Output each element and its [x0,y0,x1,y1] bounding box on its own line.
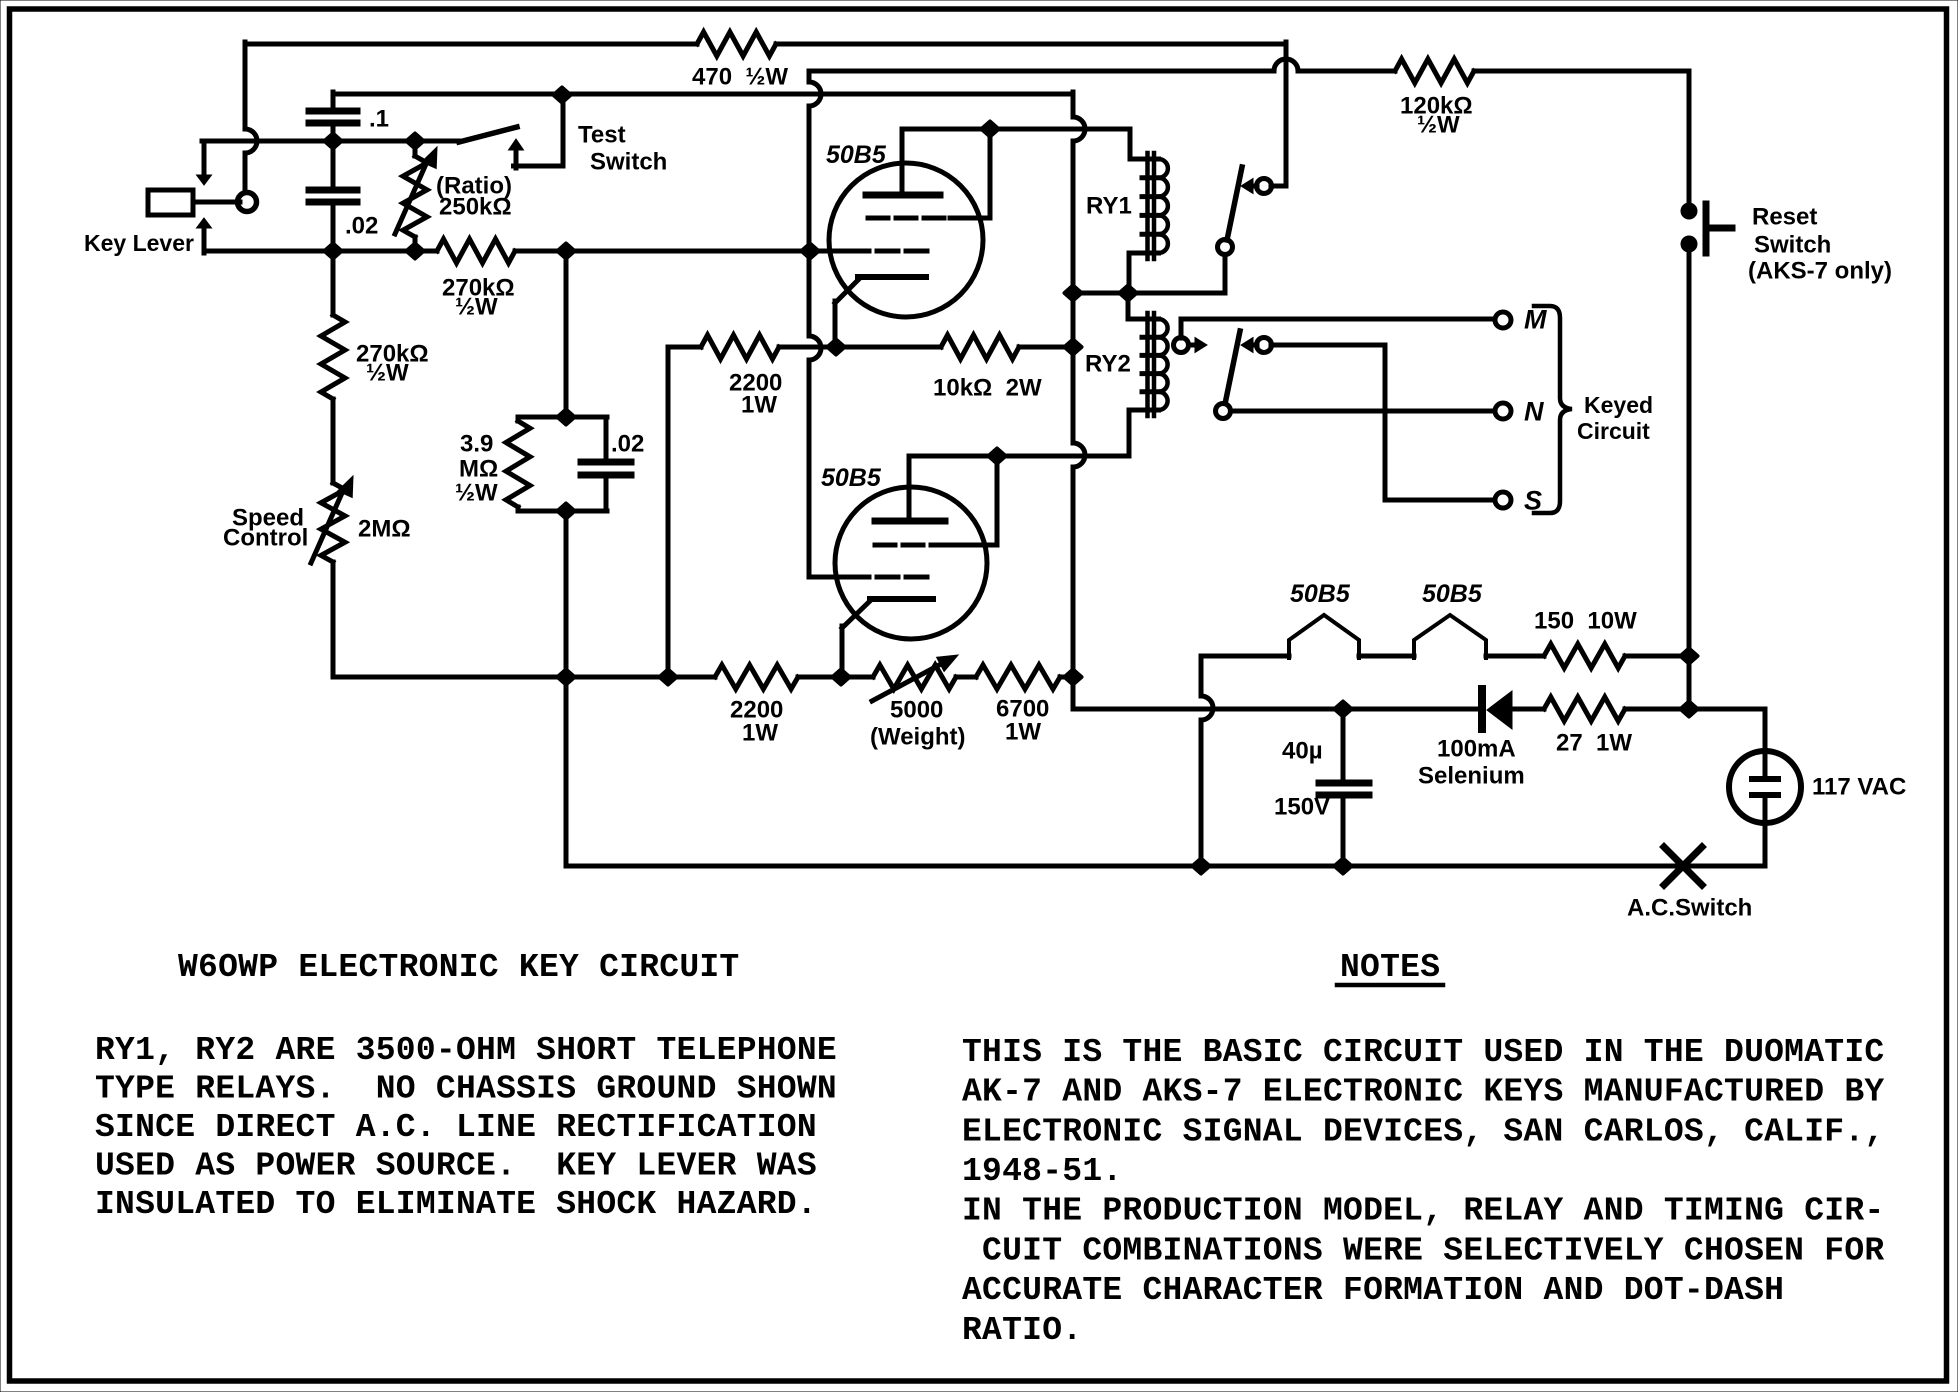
RY1 switch blade [1227,167,1242,240]
heading NOTES [1337,949,1443,986]
svg-text:10kΩ 2W: 10kΩ 2W [933,375,1042,402]
wire 27 row to VAC source [1689,709,1765,777]
junction dot rail x415 [407,244,424,259]
resistor 2200 1W lower [715,665,798,689]
reset switch button [1706,204,1732,253]
label 270k vertical [356,341,429,387]
junction dot rail x566 [558,244,575,259]
RY2 blade lower circle [1216,404,1231,419]
wire plate row y129 to RY1 [902,129,1147,159]
junction dot heater row right [1681,649,1698,664]
label 50B5 lower [821,464,882,492]
svg-text:½W: ½W [1417,112,1460,139]
potentiometer 250k ratio [403,141,427,253]
terminal S [1495,492,1511,508]
junction dot row677 x1073 [1065,670,1082,685]
wire 6700 to x1073 [1060,675,1073,680]
junction dot row677 x566 [558,670,575,685]
svg-text:250kΩ: 250kΩ [439,194,512,221]
label 5000 weight [870,697,966,751]
junction dot rail x810 grid [802,244,819,259]
wire x1073 corner to row709 [1073,677,1478,709]
wire pivot to M terminal [1181,319,1496,338]
heater V1 tent [1289,615,1359,658]
speed control arrow [311,476,353,563]
svg-text:1W: 1W [742,720,778,747]
svg-text:INSULATED TO ELIMINATE SHOCK H: INSULATED TO ELIMINATE SHOCK HAZARD. [95,1186,817,1223]
label Test Switch [578,122,667,176]
RC network bottom rail [518,509,607,514]
svg-text:Keyed: Keyed [1584,392,1653,418]
arrow up below key lever [197,218,212,253]
junction dot cap row left [325,134,342,149]
relay coil RY2 [1142,313,1168,416]
resistor 470 ohm half watt [697,32,776,56]
resistor 150 10W [1544,644,1625,668]
wire row677 left [333,675,715,680]
wire 150 to reset vertical [1625,654,1689,659]
wire 2200 to cathode dot [779,345,941,350]
label 40u [1282,738,1323,765]
svg-text:1948-51.: 1948-51. [962,1153,1122,1190]
wire vertical from top rail down to key terminal with hop [245,42,257,196]
svg-text:.02: .02 [345,213,378,240]
svg-text:N: N [1524,397,1544,427]
weight pot arrow [872,655,958,701]
svg-text:5000: 5000 [890,697,943,724]
label RY1 [1086,193,1132,220]
junction dot 40u top [1335,702,1352,717]
tube V1 plate [866,129,940,195]
label 2200 lower [730,697,783,747]
wire x809 vertical [809,71,821,577]
junction dot x1128 y293 [1120,286,1137,301]
junction dot row677 x668 [660,670,677,685]
svg-text:40µ: 40µ [1282,738,1323,765]
label 150V [1274,794,1330,821]
svg-text:50B5: 50B5 [821,464,882,492]
label RY2 [1085,351,1131,378]
svg-text:50B5: 50B5 [1422,580,1483,608]
tube V1 control grid dashes [848,249,934,254]
resistor 270k upper [437,239,515,263]
svg-text:RY2: RY2 [1085,351,1131,378]
terminal M [1495,312,1511,328]
label 50B5 heater1 [1290,580,1351,608]
resistor 120k [1395,59,1474,83]
wire plate row y456 to RY2 [909,454,1129,459]
svg-text:Control: Control [223,525,308,552]
svg-text:Switch: Switch [590,149,667,176]
junction dot ratio pot top [407,134,424,149]
wire 27 to reset vertical [1625,707,1689,712]
resistor 270k vertical [321,251,345,483]
label 27 1W [1556,730,1632,757]
test switch wire to y94 [514,94,564,166]
resistor 10k 2W [941,335,1019,359]
label .02 lower [611,431,644,458]
svg-text:W6OWP ELECTRONIC KEY CIRCUIT: W6OWP ELECTRONIC KEY CIRCUIT [178,949,740,986]
junction dot cathode V1 [828,340,845,355]
wire heater row corner [1201,656,1289,866]
svg-text:1W: 1W [741,392,777,419]
wire x566 RC bottom to row677 [564,511,569,677]
svg-text:(Weight): (Weight) [870,724,966,751]
label 250k [439,194,512,221]
key lever bar [148,190,193,215]
wire y71 from x809 corner to 120k [809,59,1395,71]
tube V2 control grid [809,575,934,580]
wire top rail from key hook to 470 resistor [245,42,697,47]
label 50B5 heater2 [1422,580,1483,608]
wire rail y251 right segment to tube grid [515,249,848,254]
svg-text:RY1: RY1 [1086,193,1132,220]
svg-text:SINCE DIRECT A.C. LINE RECTIFI: SINCE DIRECT A.C. LINE RECTIFICATION [95,1109,817,1146]
RY2 fixed contact [1241,338,1272,353]
ratio pot arrow [395,147,437,234]
reset switch contacts [1681,203,1697,252]
RY2 coil top lead [1128,293,1147,319]
svg-text:117 VAC: 117 VAC [1812,774,1906,801]
tube V2 screen grid [875,456,997,545]
label 117 VAC [1812,774,1906,801]
svg-text:USED AS POWER SOURCE. KEY LEV: USED AS POWER SOURCE. KEY LEVER WAS [95,1147,817,1184]
wire between tents [1359,654,1414,659]
svg-text:RY1, RY2 ARE 3500-OHM SHORT TE: RY1, RY2 ARE 3500-OHM SHORT TELEPHONE [95,1032,837,1069]
junction dot bottom x1201 [1193,859,1210,874]
wire 2200 row left corner [668,347,701,677]
svg-text:470 ½W: 470 ½W [692,64,788,91]
svg-text:.02: .02 [611,431,644,458]
resistor 3.9M [506,417,530,511]
svg-text:½W: ½W [455,294,498,321]
tube V2 cathode [842,599,933,677]
RY1 fixed contact [1241,179,1272,194]
wire rail y251 key row [204,249,437,254]
wire contact to S terminal [1271,345,1496,500]
label AC Switch [1627,895,1752,922]
label .02 upper [345,213,378,240]
title W6OWP [178,949,740,986]
wire row y293 [1073,254,1225,293]
tube V2 50B5 envelope [835,487,987,639]
notes paragraph left [95,1032,837,1223]
svg-text:150V: 150V [1274,794,1330,821]
wire tent2 to 150 resistor [1486,654,1544,659]
junction dot x1073 y293 [1065,286,1082,301]
junction dot x1073 y347 [1065,340,1082,355]
heater V2 tent [1414,615,1486,658]
svg-text:50B5: 50B5 [826,141,887,169]
key terminal circle [238,193,257,212]
resistor 6700 1W [976,665,1060,689]
capacitor 40u 150V [1319,709,1369,866]
svg-text:NOTES: NOTES [1340,949,1440,986]
svg-text:2MΩ: 2MΩ [358,516,411,543]
label Key Lever [84,230,194,256]
test switch blade [459,127,517,142]
svg-text:M: M [1524,305,1547,335]
wire 5000 to 6700 [956,675,976,680]
svg-text:TYPE RELAYS. NO CHASSIS GROUN: TYPE RELAYS. NO CHASSIS GROUND SHOWN [95,1070,837,1107]
wire bottom rail [566,511,1765,866]
test switch contact arrow [509,139,524,168]
relay coil RY1 [1142,153,1168,259]
label 150 10W [1534,608,1637,635]
svg-text:50B5: 50B5 [1290,580,1351,608]
junction dot RC bottom [558,504,575,519]
label N [1524,397,1544,427]
source 117 VAC [1729,751,1801,823]
svg-text:ACCURATE CHARACTER FORMATION A: ACCURATE CHARACTER FORMATION AND DOT-DAS… [962,1272,1784,1309]
svg-text:100mA: 100mA [1437,736,1516,763]
wire y94 from cap .1 top to corner at x1073 [333,92,1073,108]
RC network top rail [518,415,607,420]
tube V1 cathode [835,277,926,347]
wire 10k to x1073 [1019,345,1073,350]
svg-text:Circuit: Circuit [1577,418,1650,444]
selenium rectifier 100mA [1482,689,1544,729]
switch AC X [1664,847,1702,885]
svg-text:THIS IS THE BASIC CIRCUIT USED: THIS IS THE BASIC CIRCUIT USED IN THE DU… [962,1034,1884,1071]
svg-text:A.C.Switch: A.C.Switch [1627,895,1752,922]
svg-text:CUIT COMBINATIONS WERE SELECTI: CUIT COMBINATIONS WERE SELECTIVELY CHOSE… [962,1232,1884,1269]
svg-text:150 10W: 150 10W [1534,608,1637,635]
tube V1 50B5 envelope [829,163,983,317]
label Ratio [436,173,512,200]
svg-text:½W: ½W [366,360,409,387]
label selenium [1418,736,1525,790]
label S [1524,486,1542,516]
capacitor .02 upper [309,141,357,253]
svg-text:Reset: Reset [1752,204,1817,231]
keyed circuit brace [1534,306,1572,513]
RY2 coil bottom lead [1129,410,1147,456]
wire x1073 from y94 corner down [1073,92,1085,677]
label 6700 [996,696,1049,746]
capacitor .02 lower [581,417,631,511]
wire y141 horizontal key row [202,139,461,144]
junction dot screen-plate [982,122,999,137]
svg-text:(AKS-7 only): (AKS-7 only) [1748,258,1892,285]
junction dot bottom x1343 [1335,859,1352,874]
svg-text:Test: Test [578,122,626,149]
wire key lever to terminal [193,200,240,205]
label 2200 upper [729,370,782,419]
svg-text:3.9: 3.9 [460,431,493,458]
svg-text:AK-7 AND AKS-7 ELECTRONIC KEYS: AK-7 AND AKS-7 ELECTRONIC KEYS MANUFACTU… [962,1074,1884,1111]
RY1 contact wire to top rail [1271,184,1286,189]
junction dot rail x333 [325,244,342,259]
label 120k [1400,93,1473,139]
svg-text:Key Lever: Key Lever [84,230,194,256]
potentiometer 2M speed control [321,483,345,677]
label 2M [358,516,411,543]
svg-text:RATIO.: RATIO. [962,1312,1082,1349]
label 10k 2W [933,375,1042,402]
potentiometer 5000 weight [873,665,956,689]
label 3.9M [455,431,498,507]
RY1 armature pivot [1218,240,1233,255]
wire 2200 to 5000 [798,675,873,680]
RY2 switch blade [1225,331,1240,404]
wire reset switch down to heater row [1687,244,1692,709]
svg-text:IN THE PRODUCTION MODEL, RELAY: IN THE PRODUCTION MODEL, RELAY AND TIMIN… [962,1193,1884,1230]
junction dot cathode V2 [833,670,850,685]
svg-text:.1: .1 [369,106,389,133]
junction dot RC top [558,410,575,425]
label Speed Control [223,505,308,552]
tube V2 plate [875,456,945,521]
junction dot 27 row right [1681,702,1698,717]
svg-text:1W: 1W [1005,719,1041,746]
RY2 armature pivot [1174,338,1208,353]
wire 120k to reset switch corner [1474,71,1689,211]
svg-text:Switch: Switch [1754,232,1831,259]
wire N terminal [1231,409,1496,414]
svg-text:½W: ½W [455,480,498,507]
svg-text:Selenium: Selenium [1418,763,1525,790]
capacitor .1 [309,92,357,141]
wire x566 from rail down to RC top [564,251,569,417]
terminal N [1495,403,1511,419]
svg-text:ELECTRONIC SIGNAL DEVICES, SAN: ELECTRONIC SIGNAL DEVICES, SAN CARLOS, C… [962,1113,1884,1150]
svg-text:MΩ: MΩ [459,456,498,483]
junction dot test switch [554,88,571,103]
label Reset Switch [1748,204,1892,285]
junction dot V2 screen-plate [989,449,1006,464]
label 50B5 upper [826,141,887,169]
label Keyed Circuit [1577,392,1653,444]
wire VAC to bottom rail [1763,795,1768,866]
label M [1524,305,1547,335]
wire top rail right segment to reset-contact corner [776,42,1286,186]
arrow down at key lever [197,143,212,185]
value label 470 halfW [692,64,788,91]
RY1 coil bottom lead [1129,253,1147,293]
label .1 [369,106,389,133]
label 270k upper [442,275,515,321]
svg-text:27 1W: 27 1W [1556,730,1632,757]
tube V1 screen grid [868,129,990,218]
resistor 2200 1W upper [701,335,779,359]
notes paragraph right [962,1034,1884,1349]
resistor 27 1W [1544,697,1625,721]
